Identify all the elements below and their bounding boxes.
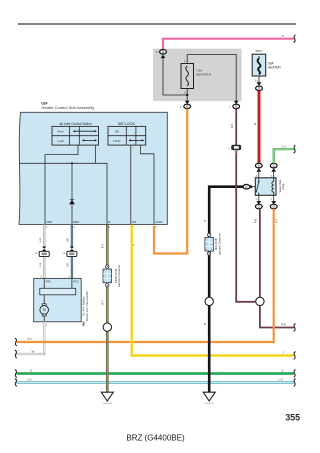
continuation curls of bus G: [15, 370, 296, 378]
junction connector on wire B: [205, 233, 222, 255]
svg-text:P: P: [282, 34, 284, 38]
wire: SW2 to FD pin: [130, 145, 132, 224]
inline connector on wire GR: [63, 247, 77, 257]
heater control box D24: [19, 101, 167, 224]
continuation curl of wire R-B: [294, 324, 296, 332]
svg-text:R-B: R-B: [254, 218, 258, 223]
pin numbers below box D24: [46, 227, 157, 229]
svg-text:R-B: R-B: [281, 323, 286, 327]
connector 6 (junction block bottom, to orange wire): [180, 101, 191, 109]
svg-text:Free: Free: [58, 130, 65, 134]
ground (wire B-Y): [101, 392, 113, 403]
svg-text:E: E: [108, 220, 110, 224]
wire R-B #2 (relay to continuation): [260, 209, 294, 328]
svg-text:Heater Control Sub-Assembly: Heater Control Sub-Assembly: [42, 105, 95, 110]
svg-text:Y: Y: [132, 244, 136, 246]
continuation curl of wire R-Y: [15, 338, 17, 346]
relay top-right connector (green wire): [270, 163, 277, 178]
svg-text:FRS: FRS: [46, 281, 51, 284]
svg-text:M62: M62: [83, 321, 86, 326]
wire: SW1 to FRS pin: [45, 145, 78, 224]
svg-text:MJL #10B: MJL #10B: [214, 238, 218, 250]
wire: fuse top across to right drop inside junction block: [187, 55, 236, 102]
svg-text:R-B: R-B: [230, 123, 234, 128]
svg-text:G: G: [30, 369, 32, 373]
wire R (red, 50A to relay): [258, 91, 261, 163]
svg-text:DEF-LOGIC: DEF-LOGIC: [118, 122, 136, 126]
diode (REC branch): [69, 200, 75, 205]
connector 2-1 (below 50A fusible link): [255, 76, 263, 91]
svg-text:FRS: FRS: [46, 220, 52, 224]
wire G-Y (green, relay to continuation): [274, 149, 294, 163]
wire R-B #1 (from junction block connector 7): [236, 109, 256, 302]
svg-text:Y: Y: [283, 351, 285, 355]
svg-text:ACID: ACID: [155, 220, 162, 224]
svg-text:Air Inlet Control Switch: Air Inlet Control Switch: [59, 122, 91, 126]
inline connector on wire R-B #1: [229, 145, 241, 153]
wire O (orange, ACID pin up to junction block connector 6): [154, 109, 187, 254]
fusible link 50A HEATER: [252, 49, 281, 76]
svg-text:R-Y: R-Y: [28, 337, 33, 341]
bus wire G (green): [17, 372, 295, 374]
wire: connector 8 down and over to fuse bottom node: [163, 58, 187, 95]
wire: diode branch to REC pin: [71, 163, 73, 224]
wire: common bus to E pin: [20, 145, 108, 224]
relay top-left connector (red wire): [255, 163, 262, 178]
wire L-G (FRS to servo): [43, 225, 45, 279]
bus wire L-O (teal): [17, 381, 295, 383]
relay bottom-left connector (to R-B wire): [255, 195, 262, 209]
svg-text:355: 355: [285, 413, 300, 423]
svg-text:Junction Connector: Junction Connector: [117, 265, 121, 287]
svg-text:GR: GR: [66, 238, 70, 242]
svg-text:W: W: [32, 349, 35, 353]
svg-text:HEATER: HEATER: [268, 66, 281, 70]
wire B (black, relay to ground): [209, 187, 243, 393]
wire P (pink battery feed): [163, 39, 294, 50]
svg-text:REC: REC: [73, 281, 78, 284]
switch SW1 (Air Inlet Control Switch): [52, 122, 99, 145]
svg-text:No. 4 A/C Radiator: No. 4 A/C Radiator: [83, 296, 86, 315]
svg-text:REC: REC: [73, 220, 79, 224]
svg-text:B: B: [203, 323, 207, 325]
junction block (gray relay box): [154, 49, 242, 101]
splice circle on wire R-B: [256, 297, 264, 305]
continuation curl of wire P: [294, 35, 296, 43]
svg-text:Lock: Lock: [58, 139, 65, 143]
svg-text:GR: GR: [66, 263, 70, 267]
svg-text:Damper Servo Sub-Assembly: Damper Servo Sub-Assembly: [86, 290, 89, 321]
wire GR (REC to servo): [71, 225, 73, 279]
connector 7 (junction block bottom, to R-B wire): [229, 101, 240, 109]
svg-text:L-G: L-G: [38, 238, 42, 242]
svg-text:HEATER-B: HEATER-B: [196, 73, 211, 77]
wire W (white, servo to left continuation): [17, 322, 45, 354]
relay coil connector (black wire, left side): [243, 184, 255, 189]
continuation curl of wire W: [15, 350, 17, 358]
svg-text:B-Y: B-Y: [101, 244, 105, 249]
svg-text:Relay: Relay: [282, 183, 285, 190]
continuation curls of bus L-O: [15, 379, 296, 387]
svg-text:FD: FD: [132, 220, 136, 224]
fuse F (7.5A HEATER-B): [181, 55, 211, 102]
continuation curl of wire Y: [294, 352, 296, 360]
switch SW2 (DEF-LOGIC): [108, 122, 146, 145]
svg-text:G: G: [281, 369, 283, 373]
splice circle on wire B: [205, 297, 213, 305]
svg-text:(BAT): (BAT): [255, 49, 262, 53]
junction dot on common bus: [71, 162, 73, 164]
wire R-Y (orange, relay to left continuation): [17, 209, 274, 342]
svg-text:L-O: L-O: [27, 378, 32, 382]
svg-text:B: B: [203, 219, 207, 221]
wire: SW2 to ACID pin: [141, 145, 154, 224]
continuation curl of wire G-Y: [294, 145, 296, 153]
svg-text:BRZ (G4400BE): BRZ (G4400BE): [126, 434, 185, 443]
ground (wire B): [203, 392, 215, 403]
svg-text:B-Y: B-Y: [101, 300, 105, 305]
svg-text:R-Y: R-Y: [274, 218, 278, 223]
page top rule: [18, 23, 296, 25]
svg-text:PRML D708: PRML D708: [114, 268, 118, 283]
splice circle on wire B-Y: [103, 323, 111, 331]
wire Y (yellow, FD to continuation): [132, 225, 294, 356]
svg-text:Junction Connector: Junction Connector: [217, 233, 221, 255]
wire B-Y (olive, E pin to ground): [106, 225, 108, 393]
svg-text:G-Y: G-Y: [282, 144, 287, 148]
svg-text:L-G: L-G: [38, 263, 42, 267]
svg-text:Off: Off: [115, 130, 119, 134]
relay bottom-right connector (to R-Y wire): [270, 195, 277, 209]
svg-text:L-O: L-O: [278, 378, 283, 382]
svg-text:F/S-D: F/S-D: [113, 139, 120, 143]
svg-text:2-1: 2-1: [255, 79, 259, 83]
junction connector on wire B-Y: [103, 265, 121, 287]
servo box (air inlet damper servo sub-assembly): [34, 277, 89, 327]
relay U (Heater Main Relay): [255, 178, 285, 196]
connector 8 (into junction block): [156, 50, 166, 59]
inline connector on wire L-G: [35, 247, 49, 257]
svg-text:M: M: [43, 308, 46, 312]
junction dot at fuse bottom node: [186, 94, 188, 96]
